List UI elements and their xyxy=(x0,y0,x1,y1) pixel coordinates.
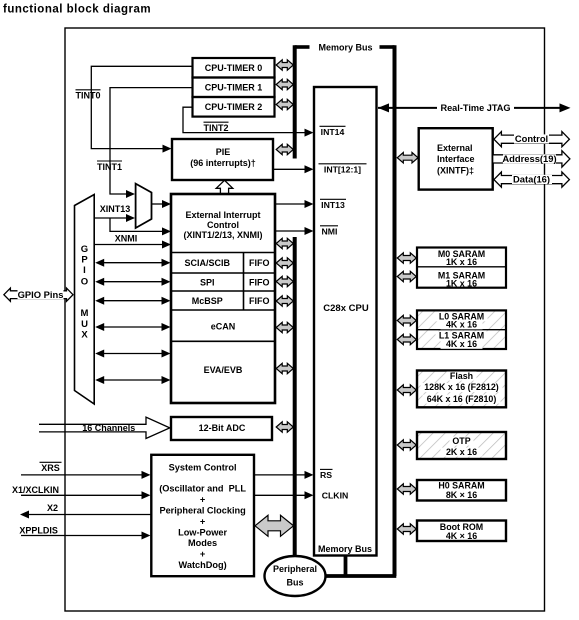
svg-text:External Interrupt: External Interrupt xyxy=(185,210,260,220)
block GPIO MUX polygon xyxy=(75,195,95,405)
block SCIA/SCIB + FIFO xyxy=(185,258,270,268)
wire XINT13: GPIO MUX to mux xyxy=(94,214,135,222)
svg-text:I: I xyxy=(83,265,86,276)
block L0 SARAM / L1 SARAM (hatched) xyxy=(417,310,506,349)
bus arrow System Control to peripheral bus (large) xyxy=(255,515,294,536)
bus: Memory Bus top label and lines xyxy=(295,42,395,52)
arrow Control (bidirectional) xyxy=(494,132,570,147)
block CPU-TIMER 0 xyxy=(193,58,275,78)
svg-text:M: M xyxy=(81,308,89,319)
bus arrow McBSP to peripheral bus xyxy=(276,296,293,306)
svg-text:TINT1: TINT1 xyxy=(97,162,122,172)
svg-text:Address(19): Address(19) xyxy=(502,153,556,164)
svg-text:FIFO: FIFO xyxy=(249,258,270,268)
wire X1/XCLKIN into System Control xyxy=(21,491,151,499)
wire GPIO MUX to peripheral (y=327) xyxy=(95,323,170,331)
wire RS System Control to CPU xyxy=(255,471,314,479)
svg-text:8K × 16: 8K × 16 xyxy=(446,490,477,500)
pin INT13 xyxy=(320,199,346,210)
bus arrow OTP xyxy=(397,440,416,450)
pin NMI xyxy=(320,226,338,237)
wire TINT2: CPU-TIMER 2 to CPU INT14 xyxy=(183,107,314,136)
bus arrow H0 SARAM xyxy=(397,484,416,494)
svg-text:NMI: NMI xyxy=(322,227,338,237)
outer border frame xyxy=(65,28,545,611)
svg-text:RS: RS xyxy=(320,470,332,480)
block External Interface (XINTF) xyxy=(419,128,493,189)
wire XRS into System Control xyxy=(21,471,151,479)
svg-text:PIE: PIE xyxy=(216,147,231,157)
block CPU-TIMER 2 xyxy=(193,97,275,117)
pin INT14 xyxy=(320,126,346,137)
svg-text:128K x 16 (F2812): 128K x 16 (F2812) xyxy=(424,382,499,392)
svg-text:(Oscillator and PLL: (Oscillator and PLL xyxy=(159,483,246,493)
wire X2 out of System Control xyxy=(20,511,152,519)
bus arrow L0 SARAM xyxy=(397,315,416,325)
bus: peripheral bus vertical xyxy=(293,237,297,576)
svg-text:External: External xyxy=(437,143,473,153)
bus arrow SPI to peripheral bus xyxy=(276,276,293,286)
svg-text:Peripheral Clocking: Peripheral Clocking xyxy=(159,505,245,515)
wire PIE to INT[12:1] xyxy=(274,165,314,173)
bus arrow Flash xyxy=(397,385,416,395)
bus arrow PIE to memory bus xyxy=(276,144,293,154)
svg-text:INT13: INT13 xyxy=(321,200,345,210)
wire External Interrupt Control to NMI xyxy=(276,227,314,235)
svg-text:+: + xyxy=(200,494,205,504)
wire XINT13 branch to External Interrupt Control xyxy=(110,218,171,235)
svg-text:EVA/EVB: EVA/EVB xyxy=(204,365,243,375)
label TINT1 xyxy=(97,161,122,172)
label GPIO MUX letters xyxy=(81,244,89,341)
block C28x CPU xyxy=(314,87,377,556)
block External Interrupt Control / peripherals stack xyxy=(171,194,275,403)
arrow Address(19) xyxy=(493,151,570,167)
arrow Data(16) (bidirectional) xyxy=(494,172,570,187)
svg-text:Real-Time JTAG: Real-Time JTAG xyxy=(440,103,510,113)
block H0 SARAM xyxy=(417,480,506,501)
svg-text:INT14: INT14 xyxy=(321,127,345,137)
svg-text:Data(16): Data(16) xyxy=(513,174,550,185)
bus arrow eCAN to peripheral bus xyxy=(276,322,293,332)
svg-text:System Control: System Control xyxy=(169,462,237,472)
hollow arrow External Interrupt Control to PIE xyxy=(216,180,233,194)
svg-text:XINT13: XINT13 xyxy=(100,204,131,214)
svg-text:X: X xyxy=(81,330,88,341)
arrow 16 Channels into ADC xyxy=(39,417,170,438)
bus arrow CPU-TIMER 2 to memory bus xyxy=(276,99,293,109)
svg-text:GPIO Pins: GPIO Pins xyxy=(18,289,64,300)
svg-text:+: + xyxy=(200,516,205,526)
block M0 SARAM / M1 SARAM xyxy=(417,248,506,289)
svg-text:FIFO: FIFO xyxy=(249,296,270,306)
mux trapezoid (TINT1/XINT13) xyxy=(136,184,152,228)
svg-text:G: G xyxy=(81,244,88,255)
bus: memory bus right vertical xyxy=(393,45,397,576)
arrow GPIO Pins (bidirectional) xyxy=(4,288,73,301)
wire GPIO MUX to peripheral (y=262.7) xyxy=(95,259,170,267)
node Peripheral Bus xyxy=(265,556,326,596)
label TINT0 xyxy=(75,90,100,101)
svg-text:WatchDog): WatchDog) xyxy=(179,560,227,570)
svg-text:1K x 16: 1K x 16 xyxy=(446,279,477,289)
block System Control xyxy=(151,455,254,576)
label XRS xyxy=(40,462,62,473)
svg-text:4K x 16: 4K x 16 xyxy=(446,320,477,330)
svg-text:XNMI: XNMI xyxy=(115,233,138,243)
bus: bottom memory bus horizontal xyxy=(295,574,397,578)
bus arrow EVA/EVB to peripheral bus xyxy=(276,363,293,373)
bus arrow External Interrupt Control to peripheral bus xyxy=(276,238,293,248)
bus: memory bus left vertical xyxy=(293,45,297,158)
wire External Interrupt Control to INT13 xyxy=(276,200,314,208)
svg-text:64K x 16 (F2810): 64K x 16 (F2810) xyxy=(427,394,497,404)
bus: memory bus stub below CPU xyxy=(344,555,348,576)
svg-text:(XINTF)‡: (XINTF)‡ xyxy=(437,165,474,175)
block OTP (hatched) xyxy=(417,432,506,459)
bus arrow M1 SARAM xyxy=(397,271,416,281)
arrow Real-Time JTAG xyxy=(378,103,571,113)
svg-text:X2: X2 xyxy=(47,503,58,513)
svg-text:CPU-TIMER 0: CPU-TIMER 0 xyxy=(205,63,263,73)
block SPI + FIFO xyxy=(200,277,270,287)
svg-text:2K x 16: 2K x 16 xyxy=(446,447,477,457)
svg-text:CLKIN: CLKIN xyxy=(322,491,349,501)
block McBSP + FIFO xyxy=(192,296,270,306)
wire TINT0: CPU-TIMER 0 to PIE xyxy=(91,66,192,152)
svg-text:(XINT1/2/13, XNMI): (XINT1/2/13, XNMI) xyxy=(183,230,262,240)
svg-text:Bus: Bus xyxy=(286,578,303,588)
svg-text:Low-Power: Low-Power xyxy=(178,527,227,537)
bus arrow XINTF to memory bus xyxy=(397,153,418,163)
svg-text:U: U xyxy=(81,319,88,330)
svg-text:OTP: OTP xyxy=(452,436,470,446)
bus arrow CPU-TIMER 1 to memory bus xyxy=(276,79,293,89)
svg-text:Peripheral: Peripheral xyxy=(273,564,317,574)
svg-text:12-Bit ADC: 12-Bit ADC xyxy=(199,423,246,433)
svg-text:4K × 16: 4K × 16 xyxy=(446,531,477,541)
block 12-Bit ADC xyxy=(171,417,272,440)
wire mux output to External Interrupt Control xyxy=(152,200,171,208)
bus arrow Boot ROM xyxy=(397,524,416,534)
wire XNMI: GPIO MUX to External Interrupt Control xyxy=(94,241,171,249)
block PIE (96 interrupts) xyxy=(172,139,273,180)
label External Interrupt Control (XINT1/2/13, XNMI) xyxy=(183,210,262,240)
wire CLKIN System Control to CPU xyxy=(255,491,314,499)
bus arrow M0 SARAM xyxy=(397,253,416,263)
svg-text:TINT0: TINT0 xyxy=(75,91,100,101)
bus arrow ADC to peripheral bus xyxy=(276,422,293,432)
svg-text:functional block diagram: functional block diagram xyxy=(3,3,151,15)
svg-text:Control: Control xyxy=(515,133,548,144)
svg-text:+: + xyxy=(200,549,205,559)
svg-text:Flash: Flash xyxy=(450,371,473,381)
svg-text:FIFO: FIFO xyxy=(249,277,270,287)
pin INT[12:1] xyxy=(319,164,367,175)
wire GPIO MUX to peripheral (y=281.7) xyxy=(95,278,170,286)
wire GPIO MUX to peripheral (y=380) xyxy=(95,376,170,384)
wire XPPLDIS into System Control xyxy=(21,532,151,540)
svg-text:SCIA/SCIB: SCIA/SCIB xyxy=(185,258,231,268)
pin RS xyxy=(320,469,333,480)
svg-text:(96 interrupts)†: (96 interrupts)† xyxy=(190,158,256,168)
block Boot ROM xyxy=(417,521,506,542)
wire GPIO MUX to peripheral (y=300.7) xyxy=(95,297,170,305)
svg-text:INT[12:1]: INT[12:1] xyxy=(324,165,361,175)
svg-text:Interface: Interface xyxy=(437,154,475,164)
svg-text:1K x 16: 1K x 16 xyxy=(446,257,477,267)
svg-text:McBSP: McBSP xyxy=(192,296,223,306)
svg-text:O: O xyxy=(81,276,88,287)
svg-text:CPU-TIMER 2: CPU-TIMER 2 xyxy=(205,102,263,112)
svg-text:TINT2: TINT2 xyxy=(203,123,228,133)
block CPU-TIMER 1 xyxy=(193,78,275,98)
svg-text:CPU-TIMER 1: CPU-TIMER 1 xyxy=(205,83,263,93)
bus arrow L1 SARAM xyxy=(397,334,416,344)
svg-text:Control: Control xyxy=(207,220,239,230)
svg-text:SPI: SPI xyxy=(200,277,215,287)
label TINT2 xyxy=(203,122,228,133)
svg-text:4K x 16: 4K x 16 xyxy=(446,339,477,349)
svg-text:16 Channels: 16 Channels xyxy=(82,423,135,433)
bus arrow CPU-TIMER 0 to memory bus xyxy=(276,60,293,70)
svg-text:Memory Bus: Memory Bus xyxy=(318,544,372,554)
wire GPIO MUX to peripheral (y=353.5) xyxy=(95,350,170,358)
svg-text:Modes: Modes xyxy=(188,538,217,548)
svg-text:eCAN: eCAN xyxy=(211,322,236,332)
svg-text:X1/XCLKIN: X1/XCLKIN xyxy=(12,485,59,495)
svg-text:XPPLDIS: XPPLDIS xyxy=(19,525,58,535)
svg-text:XRS: XRS xyxy=(41,463,60,473)
wire TINT1: CPU-TIMER 1 to mux xyxy=(110,88,193,198)
svg-text:Memory Bus: Memory Bus xyxy=(318,42,372,52)
block Flash (hatched) xyxy=(417,371,506,408)
svg-text:C28x CPU: C28x CPU xyxy=(323,303,369,314)
bus arrow SCIA/SCIB to peripheral bus xyxy=(276,258,293,268)
